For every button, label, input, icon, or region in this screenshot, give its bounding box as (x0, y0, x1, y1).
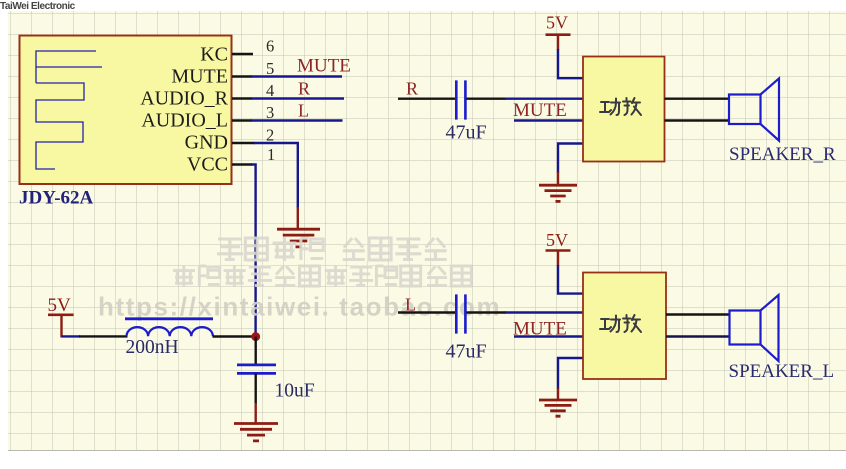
svg-text:3: 3 (266, 103, 274, 122)
amplifier label 功放 (U3) (600, 315, 641, 332)
svg-text:SPEAKER_R: SPEAKER_R (729, 144, 836, 165)
ground symbol (pin 2) (277, 229, 320, 247)
watermark line 2 (173, 265, 471, 287)
wire R net from pin 4 (251, 97, 344, 99)
svg-text:5V: 5V (48, 295, 72, 316)
ground symbol (supply filter) (234, 424, 278, 441)
svg-text:MUTE: MUTE (513, 100, 567, 121)
svg-text:GND: GND (185, 132, 228, 154)
svg-text:MUTE: MUTE (297, 56, 351, 77)
svg-text:6: 6 (266, 37, 274, 56)
svg-text:47uF: 47uF (446, 122, 487, 144)
wire 5V to amp R (558, 49, 583, 78)
pin 4 stub (232, 97, 252, 99)
svg-text:5: 5 (266, 59, 274, 78)
wire 5V to L1 (62, 335, 128, 337)
svg-text:5V: 5V (546, 13, 568, 33)
svg-text:10uF: 10uF (275, 381, 315, 402)
wire amp L out - to speaker (666, 335, 730, 337)
amplifier block U3 (left channel) (583, 273, 666, 380)
wire C3 to ground (254, 373, 256, 423)
svg-text:4: 4 (266, 81, 274, 100)
svg-text:AUDIO_L: AUDIO_L (141, 110, 228, 132)
wire amp L out + to speaker (666, 313, 730, 315)
wire MUTE stub to amp L (514, 335, 583, 337)
inductor L1 (125, 319, 213, 337)
wire amp R to ground (558, 144, 583, 185)
pin 1 stub (232, 163, 252, 165)
wire 5V to amp L (558, 265, 583, 294)
svg-text:KC: KC (200, 44, 228, 66)
svg-text:R: R (298, 79, 310, 99)
svg-text:2: 2 (266, 126, 274, 145)
svg-text:JDY-62A: JDY-62A (19, 188, 94, 209)
svg-text:5V: 5V (546, 230, 568, 250)
wire MUTE stub to amp R (514, 119, 583, 121)
wire L label to C2 (398, 311, 455, 313)
module U1 JDY-62A body (20, 36, 232, 185)
capacitor C1 47uF plates (456, 80, 465, 119)
power 5V bar symbol (amp L) (546, 251, 571, 267)
power 5V bar symbol (supply) (48, 315, 74, 338)
pin 2 stub (232, 142, 255, 144)
svg-text:https://xintaiwei. taobao.com: https://xintaiwei. taobao.com (98, 292, 501, 322)
wire VCC from pin 1 down to LC node (251, 165, 256, 334)
svg-text:L: L (298, 101, 309, 121)
wire amp R out + to speaker (665, 97, 730, 99)
amplifier label 功放 (U2) (600, 98, 641, 115)
wire amp L to ground (558, 358, 583, 399)
svg-text:1: 1 (267, 145, 275, 164)
wire L1 to node (213, 335, 256, 337)
wire GND from pin 2 (254, 143, 298, 228)
pin 6 stub (232, 53, 253, 55)
wire C2 to amp L (467, 311, 584, 313)
amplifier block U2 (right channel) (583, 57, 665, 162)
svg-text:SPEAKER_L: SPEAKER_L (729, 361, 835, 382)
svg-text:R: R (406, 79, 418, 99)
svg-text:MUTE: MUTE (171, 66, 228, 88)
wire amp R out - to speaker (665, 119, 730, 121)
pin 3 stub (232, 119, 252, 121)
svg-text:TaiWei Electronic: TaiWei Electronic (0, 1, 76, 12)
capacitor C3 10uF plates (237, 365, 276, 374)
speaker LS2 symbol (730, 295, 779, 361)
power 5V bar symbol (amp R) (546, 35, 571, 50)
watermark line 1 (217, 237, 447, 261)
svg-text:200nH: 200nH (126, 337, 179, 358)
ground symbol (amp L) (539, 400, 577, 416)
wire C1 to amp R (467, 97, 584, 99)
capacitor C2 47uF plates (456, 294, 465, 333)
svg-text:AUDIO_R: AUDIO_R (140, 88, 228, 110)
wire R label to C1 (398, 97, 455, 99)
speaker LS1 symbol (729, 78, 779, 140)
svg-text:VCC: VCC (187, 154, 228, 176)
wire node to C3 (254, 337, 256, 364)
ground symbol (amp R) (539, 185, 577, 201)
wire MUTE net from pin 5 (251, 75, 342, 77)
junction node (251, 332, 260, 341)
svg-text:47uF: 47uF (446, 341, 487, 363)
antenna symbol inside module (36, 51, 102, 169)
wire L net from pin 3 (251, 119, 343, 121)
pin 5 stub (232, 75, 252, 77)
